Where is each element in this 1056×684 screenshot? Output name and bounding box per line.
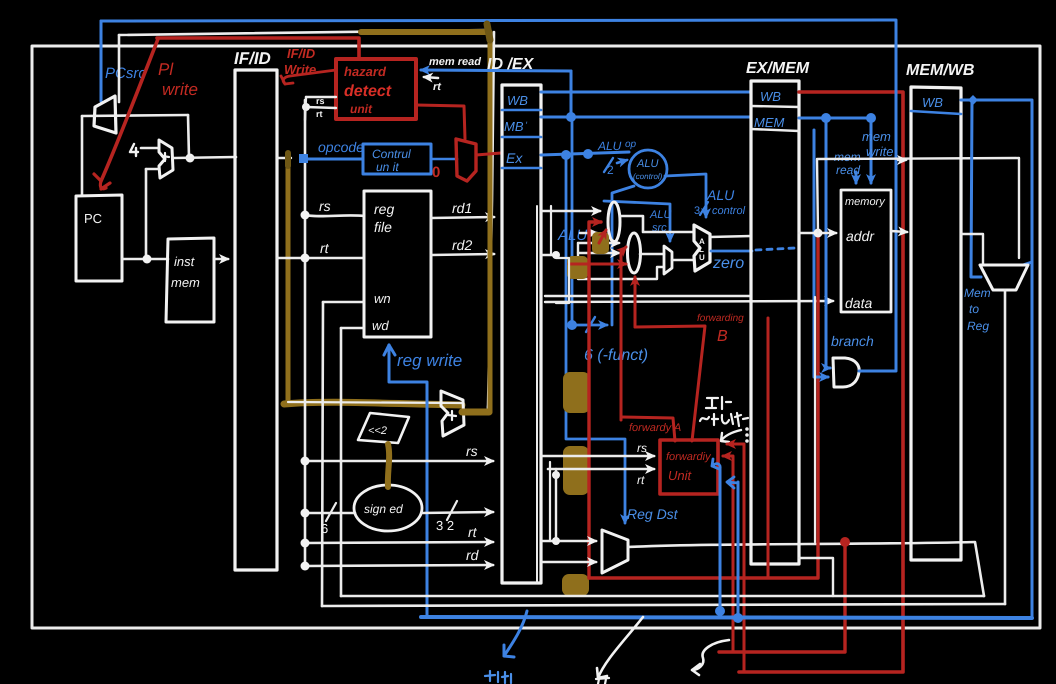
svg-text:mem read: mem read <box>429 56 481 68</box>
korean note and reg write <box>706 397 731 409</box>
register EX/MEM <box>751 81 799 564</box>
register IF/ID <box>235 70 277 570</box>
wire red forward A loop <box>589 222 601 578</box>
wire olive adder out and riser <box>462 409 489 416</box>
svg-text:memory: memory <box>845 196 886 208</box>
wire rt to reg file <box>305 257 364 260</box>
svg-text:reg write: reg write <box>397 351 462 370</box>
wire and out to pcsrc <box>859 21 896 371</box>
wire red fwd B up <box>621 247 626 420</box>
svg-text:mem: mem <box>171 275 200 290</box>
svg-text:rs: rs <box>319 198 331 214</box>
svg-text:un it: un it <box>376 160 399 174</box>
wire zero flag blue <box>711 250 752 253</box>
wire white curl into fwd unit <box>721 430 741 442</box>
svg-text:Ex: Ex <box>506 150 523 166</box>
memory instruction mem <box>166 238 214 322</box>
svg-text:U: U <box>699 253 705 262</box>
wire adder2 out white <box>464 406 488 410</box>
wire rs to reg file <box>305 215 364 216</box>
svg-text:(control): (control) <box>633 172 663 181</box>
wire instruction out of IF/ID <box>277 257 305 260</box>
wire branch-target top white <box>119 30 488 35</box>
svg-text:0: 0 <box>432 164 440 181</box>
svg-text:6: 6 <box>321 521 328 536</box>
annotation white curve arrow bottom <box>597 617 643 678</box>
wire red top into hazard <box>157 38 359 59</box>
adder A1 pc+4 <box>159 140 173 178</box>
svg-text:B: B <box>717 328 728 345</box>
svg-text:2: 2 <box>607 163 614 177</box>
svg-text:IF/ID: IF/ID <box>234 49 271 68</box>
register ID/EX <box>502 85 541 583</box>
wire red mux2 b path <box>635 326 705 441</box>
svg-text:ID /EX: ID /EX <box>487 56 535 73</box>
wire WB row blue <box>541 91 750 94</box>
wire routing box aux <box>556 258 569 303</box>
svg-text:file: file <box>374 219 392 235</box>
svg-text:wd: wd <box>372 318 389 333</box>
wire writeback down <box>1004 290 1007 604</box>
svg-text:to: to <box>969 302 979 316</box>
wire store data vertical <box>814 297 816 542</box>
wire regdst select blue <box>566 155 625 523</box>
wire red fwd mux2 bottom arrow <box>634 277 637 327</box>
register file <box>364 191 431 337</box>
wire hazard rs rt stubs <box>306 97 336 108</box>
mux M5 memtoreg <box>980 265 1028 290</box>
wire blue branch drop to AND <box>826 118 830 368</box>
mux M1 pcsrc <box>94 96 116 133</box>
svg-text:Reg: Reg <box>967 319 989 333</box>
svg-text:rt: rt <box>433 81 442 93</box>
wire MEM row blue <box>541 116 750 119</box>
annotation blue korean <box>485 671 511 683</box>
wire sign extend out <box>422 512 493 513</box>
svg-text:ALU: ALU <box>636 158 658 170</box>
svg-text:forwardy A: forwardy A <box>629 422 681 434</box>
svg-text:MEM: MEM <box>754 115 785 130</box>
svg-text:branch: branch <box>831 333 874 349</box>
wire reg write blue with arrow <box>389 345 427 616</box>
wire control to mux blue <box>431 158 457 161</box>
svg-text:Unit: Unit <box>668 468 693 483</box>
wire mux1 second input <box>580 232 597 234</box>
svg-text:read: read <box>836 163 860 177</box>
mux M4 regdst <box>602 530 628 573</box>
svg-text:3 2: 3 2 <box>436 518 454 533</box>
svg-text:PC: PC <box>84 211 102 226</box>
wire 4 to adder <box>141 147 157 150</box>
svg-text:unit: unit <box>350 102 373 116</box>
pipeline field WB <box>502 109 541 112</box>
wire red WB feedback right <box>739 92 903 672</box>
svg-text:rt: rt <box>316 109 323 119</box>
svg-text:MBˈ: MBˈ <box>504 119 528 134</box>
svg-text:rs: rs <box>637 441 647 455</box>
wire writeback bus lower <box>322 604 1005 606</box>
svg-text:rd: rd <box>466 547 480 563</box>
wire blue memread to hazard <box>421 70 571 71</box>
svg-text:WB: WB <box>760 89 781 104</box>
wire blue zero drop to AND <box>814 130 828 377</box>
wire rd field lower <box>305 565 493 566</box>
mux forward A oval <box>608 202 620 242</box>
svg-text:write: write <box>162 80 198 99</box>
svg-text:Contrul: Contrul <box>372 147 411 161</box>
wire pc+4 out of IF/ID <box>277 157 291 159</box>
svg-text:detect: detect <box>344 83 392 100</box>
wire rt rd to regdst mux <box>541 540 596 543</box>
svg-text:MEM/WB: MEM/WB <box>906 62 974 79</box>
data memory <box>841 190 891 312</box>
wire PC out <box>122 258 168 261</box>
svg-text:rs: rs <box>316 96 325 106</box>
arrow red into PC <box>94 174 110 189</box>
wire red fwd arrow mux1 low <box>599 230 606 243</box>
svg-text:opcode: opcode <box>318 139 364 155</box>
wire olive pc+4 pipe vertical <box>286 153 291 404</box>
value 4 const <box>130 144 138 156</box>
svg-text:Mem: Mem <box>964 286 991 300</box>
register MEM/WB <box>911 87 961 560</box>
svg-text:ALU: ALU <box>597 139 622 153</box>
wire olive shift to signext <box>388 444 389 487</box>
svg-text:rs: rs <box>466 443 478 459</box>
wire alusrc blue <box>604 201 670 241</box>
svg-text:Reg Dst: Reg Dst <box>627 506 679 522</box>
pipeline field EX <box>502 167 541 170</box>
wire red bottom loop h652 <box>719 544 845 652</box>
wire alu result bypass riser <box>817 158 1019 258</box>
control unit <box>363 144 431 174</box>
svg-text:rd2: rd2 <box>452 237 472 253</box>
mux M2 stall red <box>456 139 476 181</box>
svg-text:zero: zero <box>712 255 744 272</box>
wire blue arrows into fwd unit <box>712 459 720 470</box>
wire mux2 inputs <box>578 242 619 244</box>
wire blue regwrite bottom bus <box>421 617 1032 618</box>
wire memwb data to mux <box>961 234 983 264</box>
wire rt field lower <box>305 542 493 543</box>
wire mux out to PC <box>81 116 84 195</box>
wire red exmem alu tap <box>589 236 818 578</box>
annotation blue arrow bottom center <box>504 611 527 657</box>
adder A2 branch <box>441 391 464 436</box>
alu U1 <box>694 225 710 271</box>
wire red up into fwd unit right <box>727 444 744 672</box>
svg-text:inst: inst <box>174 254 196 269</box>
wire red A label path <box>621 417 675 441</box>
wire blue fwd taps <box>719 470 722 611</box>
wire rs field lower <box>305 460 493 463</box>
svg-text:control: control <box>712 205 746 217</box>
mux M3 alusrc <box>664 246 672 274</box>
alu control unit circle <box>629 150 667 188</box>
wire stall mux to EX red <box>476 153 501 155</box>
wire pc+4 feedback y116 <box>82 115 188 116</box>
svg-text:mem: mem <box>862 129 891 144</box>
svg-text:EX/MEM: EX/MEM <box>746 60 810 77</box>
wire write num bus <box>341 595 984 598</box>
wire rs to fwd unit <box>541 455 654 458</box>
wire red lower fwd horizontal <box>569 263 626 266</box>
svg-text:rt: rt <box>637 473 645 487</box>
svg-text:forwardiy: forwardiy <box>666 451 712 463</box>
wire rt to fwd unit <box>548 468 654 471</box>
hazard detect unit <box>336 59 416 119</box>
wire write reg num long <box>628 542 984 596</box>
pipeline field WB memwb <box>911 111 961 114</box>
wire rd1 to ID/EX <box>431 217 494 218</box>
svg-text:wn: wn <box>374 291 391 306</box>
svg-text:PCsrc: PCsrc <box>105 65 146 82</box>
wire pc value to adder lower input <box>146 168 158 171</box>
annotation white tt glyph bottom <box>596 678 609 684</box>
wire rd2 to ID/EX <box>431 254 494 255</box>
wire blue mem row to memory <box>799 117 871 120</box>
wire PC write red diagonal <box>101 39 158 181</box>
annotation white curly arrow right <box>692 640 729 675</box>
wire opcode tap <box>304 158 363 161</box>
wire rd1 out to mux1 <box>541 210 600 213</box>
wire mux2 out to srcmux <box>640 253 664 256</box>
wire store data rows <box>545 295 751 297</box>
wire hazard to stall mux red <box>416 105 465 139</box>
svg-text:rd1: rd1 <box>452 200 472 216</box>
wire blue mem read arrow <box>855 172 858 183</box>
svg-text:sign ed: sign ed <box>364 502 403 516</box>
svg-text:WB: WB <box>922 95 943 110</box>
wire exmem bottom hook <box>799 558 833 596</box>
register PC <box>76 195 122 281</box>
forwarding unit <box>660 440 718 494</box>
SEC2 <box>322 21 1032 684</box>
wire rd2 out <box>541 254 556 256</box>
wire wn input <box>323 301 364 304</box>
wire alu result white <box>710 236 751 237</box>
wire branch-target riser right <box>488 32 494 408</box>
wire funct pipe blue <box>571 117 574 325</box>
wire pcsrc blue top bus <box>101 20 896 21</box>
pipeline field MEM exmem <box>751 129 799 131</box>
wire instruction bus vertical <box>304 100 307 566</box>
node junction pc out <box>143 255 152 264</box>
svg-text:reg: reg <box>374 201 394 217</box>
pipeline field MEM <box>502 136 541 139</box>
wire wd input <box>341 327 364 330</box>
pipeline field WB exmem <box>751 106 799 107</box>
svg-text:rt: rt <box>468 524 478 540</box>
shifter left 2 <box>358 413 409 443</box>
wire red floating riser <box>767 318 770 578</box>
svg-text:<<2: <<2 <box>368 425 387 437</box>
svg-text:IF/ID: IF/ID <box>287 46 316 61</box>
svg-text:write: write <box>866 144 893 159</box>
svg-text:mem: mem <box>834 150 861 164</box>
wire aux vertical idex out <box>550 206 552 255</box>
svg-text:Pl: Pl <box>158 60 174 79</box>
wire bus vertical aux <box>549 462 551 541</box>
wire blue regwrite drop <box>971 100 981 277</box>
wire memory out <box>891 231 907 232</box>
wire adder out to IF/ID <box>174 157 236 158</box>
wire mux1 out to ALU <box>620 216 694 232</box>
svg-text:ALU: ALU <box>706 187 735 203</box>
wire branch-target drop to mux <box>118 35 121 102</box>
and gate branch <box>833 358 859 387</box>
svg-text:rt: rt <box>320 240 330 256</box>
svg-text:forwarding: forwarding <box>697 313 744 324</box>
wire ALUop row blue <box>541 152 629 155</box>
wire memread riser blue <box>570 71 573 117</box>
SEC1 <box>157 38 984 596</box>
wire inst mem out arrow <box>215 258 228 261</box>
wire funct arrow blue <box>572 324 607 327</box>
svg-text:WB: WB <box>507 93 528 108</box>
wire pc+4 riser <box>188 115 189 158</box>
wire pcsrc down to mux <box>100 21 103 101</box>
wire alu control out 3 <box>665 174 706 217</box>
svg-text:hazard: hazard <box>344 64 387 79</box>
svg-text:data: data <box>845 295 872 311</box>
sign extend <box>354 485 422 531</box>
wire blue mem write arrow <box>870 118 873 183</box>
svg-text:op: op <box>625 139 637 150</box>
svg-text:6 (-funct): 6 (-funct) <box>584 347 648 364</box>
svg-text:ALU: ALU <box>557 227 587 244</box>
wire white under olive horizontal <box>288 402 462 403</box>
olive highlight blobs column <box>592 232 609 254</box>
svg-text:addr: addr <box>846 228 875 244</box>
wire funct riser to alu control <box>612 186 634 325</box>
wire srcmux to ALU <box>672 259 694 262</box>
wire olive top horizontal <box>361 29 489 35</box>
wire white rt arrow <box>424 77 438 78</box>
node junction pc+4 <box>186 154 195 163</box>
wire alu result to addr <box>799 232 836 235</box>
wire olive pc+4 horizontal to adder <box>284 402 462 405</box>
wire hazard to IF/ID write arrow <box>283 70 336 84</box>
mux forward B oval <box>628 233 641 273</box>
wire blue wb out diamond <box>961 100 1032 618</box>
svg-text:ALU: ALU <box>649 209 671 221</box>
wire imm to sign extend <box>305 512 355 515</box>
